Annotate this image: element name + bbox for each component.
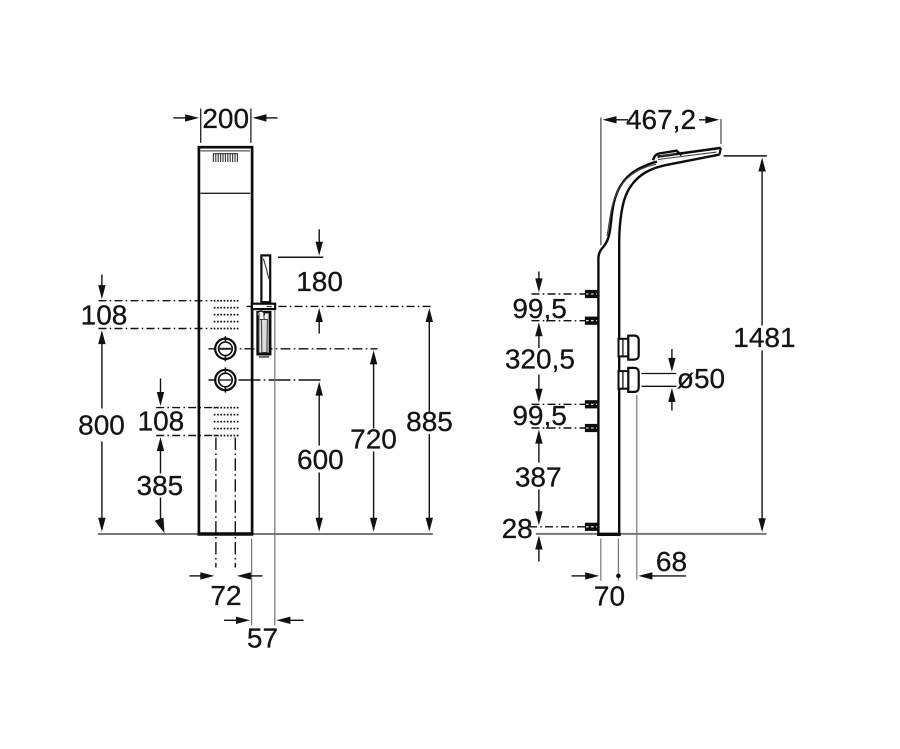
inner thin surface curve [607, 164, 656, 236]
dim 467,2 [603, 116, 617, 123]
arm tip end [720, 148, 721, 155]
dim 1481 [724, 155, 767, 157]
dim 320,5 [538, 334, 540, 348]
dim 68 [638, 572, 652, 579]
dim 600 [316, 382, 323, 396]
head inner column [261, 320, 267, 353]
svg-text:99,5: 99,5 [512, 293, 567, 324]
centerline jets top row bottom [99, 328, 213, 330]
svg-text:885: 885 [406, 406, 453, 437]
svg-text:320,5: 320,5 [505, 343, 575, 374]
side knob 1 [619, 336, 639, 360]
wall tabs [585, 290, 598, 531]
centerline knob2 (600) [209, 379, 323, 381]
ground line side [536, 533, 767, 535]
svg-text:99,5: 99,5 [512, 400, 567, 431]
dim 180 [318, 229, 320, 244]
svg-text:57: 57 [247, 623, 278, 654]
head inner side lines [259, 313, 261, 353]
svg-text:180: 180 [296, 266, 343, 297]
panel bottom thick [197, 532, 253, 535]
centerline jets top row (108 upper pair, top) [99, 300, 213, 302]
dim 108 upper [101, 275, 103, 289]
head bottom cap [257, 353, 270, 356]
385 bottom slanted bold arrow [155, 518, 165, 534]
side knob 2 [619, 368, 639, 392]
hand shower bracket [252, 304, 275, 309]
dim 70 [572, 575, 588, 577]
thin line along arm top [658, 152, 717, 159]
svg-text:108: 108 [81, 300, 128, 331]
knob center extension (68) [636, 395, 638, 580]
dim o50 [642, 373, 677, 375]
svg-text:720: 720 [350, 423, 397, 454]
dim 72 [190, 575, 202, 577]
180 top reference line [278, 256, 323, 258]
dim 385 [160, 449, 162, 474]
centerline jets lower pair bottom [156, 435, 218, 437]
bracket centerline dash [267, 306, 272, 308]
head inner line [201, 150, 251, 152]
svg-text:ø50: ø50 [677, 363, 725, 394]
jet grid lower [214, 407, 239, 437]
extension lines below side panel [600, 539, 602, 581]
svg-text:70: 70 [594, 580, 625, 611]
panel outline front [199, 147, 252, 534]
svg-text:800: 800 [78, 409, 125, 440]
extension line hand shower right (57) [274, 311, 276, 626]
hand shower head body [258, 312, 271, 354]
ground line front [98, 533, 433, 535]
vertical centerline 72 right [234, 438, 236, 568]
head neck [258, 315, 264, 320]
dim 800 [101, 342, 103, 409]
tab centerlines [529, 294, 598, 527]
svg-text:387: 387 [515, 461, 562, 492]
dim 387 [538, 442, 540, 463]
jet grid upper [214, 300, 239, 330]
head mount bump [653, 151, 682, 161]
hand shower handle [261, 255, 270, 302]
side bottom thick [597, 533, 621, 536]
head bottom line [201, 192, 251, 194]
comb ticks [213, 154, 237, 162]
svg-text:600: 600 [297, 444, 344, 475]
467,2 extension lines [600, 118, 602, 246]
dim 108 lower [160, 379, 162, 395]
arm top edge [658, 148, 721, 157]
centerline jets lower pair top [156, 407, 218, 409]
handle inner contour [263, 259, 268, 279]
side body inner (right) edge [619, 155, 719, 534]
comb top bar [213, 153, 238, 155]
svg-text:72: 72 [210, 580, 241, 611]
centerline knob1 (720) [209, 348, 378, 350]
svg-text:1481: 1481 [733, 322, 795, 353]
dim 200 [201, 109, 251, 143]
knob K1 [215, 336, 235, 361]
svg-text:385: 385 [137, 470, 184, 501]
knob K2 [215, 367, 235, 392]
centerline hand shower bracket (885/180) [247, 305, 434, 307]
svg-text:467,2: 467,2 [626, 104, 696, 135]
dim 57 [224, 619, 238, 621]
side body outer (left) edge [598, 162, 657, 534]
dim 885 [426, 308, 433, 322]
svg-text:200: 200 [202, 103, 249, 134]
svg-text:68: 68 [656, 546, 687, 577]
svg-text:28: 28 [502, 513, 533, 544]
extension line below panel right edge (57) [251, 539, 253, 626]
head dome [257, 311, 264, 315]
svg-text:108: 108 [138, 406, 185, 437]
dim 720 [370, 350, 377, 364]
dim chain left: 99,5 [538, 272, 540, 281]
vertical centerline 72 left [215, 438, 217, 568]
